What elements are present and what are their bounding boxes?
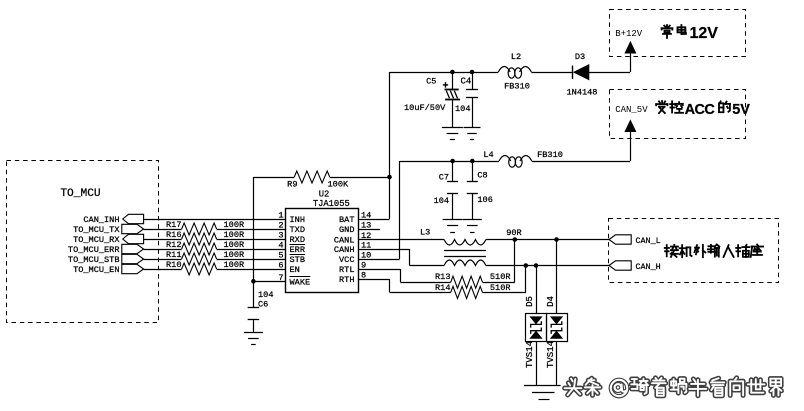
svg-text:100K: 100K	[328, 180, 349, 190]
svg-text:3: 3	[278, 231, 283, 241]
svg-text:R10: R10	[166, 260, 181, 270]
resistor R11 100R	[166, 250, 244, 265]
svg-text:R13: R13	[435, 272, 450, 282]
diode D3 1N4148	[567, 52, 598, 98]
svg-text:TJA1055: TJA1055	[313, 199, 350, 209]
port CAN_INH	[83, 214, 143, 225]
svg-text:R9: R9	[287, 180, 297, 190]
wire CAN_INH to pin 1	[144, 219, 286, 221]
inductor L2 FB310	[498, 52, 531, 92]
ground below C6	[244, 333, 263, 345]
svg-text:INH: INH	[290, 215, 305, 225]
svg-text:6: 6	[278, 261, 283, 271]
svg-text:CAN_INH: CAN_INH	[83, 215, 119, 225]
svg-text:L2: L2	[511, 52, 521, 62]
label 受控ACC的5V	[656, 101, 750, 118]
svg-text:100R: 100R	[224, 220, 245, 230]
svg-text:90R: 90R	[506, 228, 521, 238]
wire 5V rail	[400, 161, 499, 163]
port CAN_L	[609, 235, 661, 246]
svg-text:2: 2	[278, 221, 283, 231]
svg-text:TO_MCU_EN: TO_MCU_EN	[73, 265, 119, 275]
wire TO_MCU_TX to resistor R17	[144, 229, 182, 231]
svg-text:1: 1	[278, 211, 283, 221]
node C8 tap	[470, 159, 475, 164]
inductor L4 FB310	[483, 150, 563, 167]
resistor R12 100R	[166, 240, 244, 255]
wire pin 12 CANL to choke	[358, 239, 444, 241]
svg-text:STB: STB	[290, 255, 305, 265]
svg-text:CANH: CANH	[334, 245, 355, 255]
node R13/CANL junction	[513, 237, 518, 242]
svg-text:D3: D3	[575, 52, 585, 62]
svg-text:R14: R14	[435, 283, 450, 293]
IC U2 TJA1055 CAN transceiver	[278, 190, 371, 293]
wire R17 to pin 2	[217, 229, 286, 231]
wire TO_MCU_STB to resistor R11	[144, 259, 182, 261]
svg-text:D5: D5	[525, 296, 535, 307]
svg-text:TO_MCU_STB: TO_MCU_STB	[68, 255, 120, 265]
ground below D5/D4	[524, 386, 561, 400]
svg-text:FB310: FB310	[537, 150, 563, 160]
svg-text:RTL: RTL	[339, 265, 354, 275]
svg-text:5: 5	[278, 251, 283, 261]
svg-text:R17: R17	[166, 220, 181, 230]
port TO_MCU_RX	[73, 234, 144, 245]
node D5/CANH junction	[534, 263, 539, 268]
node D4/CANL junction	[554, 237, 559, 242]
svg-text:ERR: ERR	[290, 245, 305, 255]
svg-text:10uF/50V: 10uF/50V	[404, 103, 446, 113]
resistor R13 510R	[435, 272, 511, 288]
node C5 tap	[450, 70, 455, 75]
wire D4 drop	[556, 240, 558, 314]
svg-text:R16: R16	[166, 230, 181, 240]
svg-text:C4: C4	[461, 77, 472, 87]
capacitor C4 104	[455, 72, 478, 127]
capacitor C7 104	[434, 161, 459, 220]
svg-text:RTH: RTH	[339, 275, 354, 285]
node WAKE junction	[251, 279, 256, 284]
port TO_MCU_EN	[73, 264, 144, 275]
svg-text:L3: L3	[420, 228, 430, 238]
resistor R14 510R	[435, 283, 511, 299]
wire R12 to pin 4	[217, 249, 286, 251]
svg-text:100R: 100R	[224, 240, 245, 250]
wire R16 to pin 3	[217, 239, 286, 241]
svg-text:L4: L4	[483, 150, 493, 160]
svg-text:C5: C5	[426, 77, 436, 87]
label 90R	[506, 228, 521, 238]
svg-text:TO_MCU_TX: TO_MCU_TX	[73, 225, 119, 235]
svg-text:FB310: FB310	[504, 82, 530, 92]
dashed box TO_MCU	[7, 161, 159, 323]
svg-text:U2: U2	[319, 190, 330, 200]
inductor L3 common-mode choke	[420, 228, 486, 266]
power arrow B+12V	[625, 42, 635, 53]
power arrow CAN_5V	[625, 121, 635, 132]
svg-text:EN: EN	[290, 265, 300, 275]
port CAN_H	[609, 261, 661, 272]
wire R14 to CANH	[483, 266, 526, 293]
svg-text:C7: C7	[439, 173, 449, 183]
svg-text:7: 7	[278, 273, 283, 283]
svg-text:TO_MCU_ERR: TO_MCU_ERR	[68, 245, 120, 255]
ground below C4	[464, 128, 481, 140]
wire TO_MCU_ERR to resistor R12	[144, 249, 182, 251]
wire L2 to D3	[531, 72, 572, 74]
wire R11 to pin 5	[217, 259, 286, 261]
node R14/CANH junction	[524, 263, 529, 268]
port TO_MCU_ERR	[68, 244, 144, 255]
capacitor C6 104	[248, 281, 274, 332]
label CAN_5V	[615, 105, 648, 115]
wire junction to pin 7 WAKE	[253, 281, 285, 283]
svg-text:ACC: ACC	[685, 102, 716, 118]
wire pin 13 GND stub	[358, 229, 380, 231]
svg-text:VCC: VCC	[339, 255, 354, 265]
resistor R9 100K	[253, 171, 389, 190]
svg-text:WAKE: WAKE	[290, 278, 311, 288]
svg-text:GND: GND	[339, 225, 354, 235]
wire +12V rail	[390, 72, 499, 74]
svg-text:TXD: TXD	[290, 225, 305, 235]
svg-text:R11: R11	[166, 250, 181, 260]
node C4 tap	[470, 70, 475, 75]
wire pin 11 CANH jog	[358, 249, 444, 266]
svg-text:104: 104	[434, 196, 449, 206]
ground below C8	[463, 220, 482, 233]
label B+12V	[615, 29, 643, 39]
wire D3 to B+12V arrow	[589, 53, 631, 73]
port TO_MCU_STB	[68, 254, 144, 265]
watermark 头条@骑着蜗牛看向世界	[565, 378, 782, 396]
capacitor C5 10uF/50V (electrolytic)	[404, 72, 460, 127]
port TO_MCU_TX	[73, 224, 144, 235]
svg-text:100R: 100R	[224, 230, 245, 240]
svg-text:100R: 100R	[224, 250, 245, 260]
dashed box 常电12V	[610, 10, 746, 57]
capacitor C8 106	[467, 161, 493, 220]
ground below C7	[443, 220, 463, 233]
svg-text:R12: R12	[166, 240, 181, 250]
ground below C5	[442, 128, 463, 140]
wire D5 drop	[536, 266, 538, 314]
svg-text:104: 104	[455, 104, 470, 114]
svg-text:TVS14: TVS14	[546, 341, 556, 368]
svg-text:12V: 12V	[690, 25, 719, 42]
wire pin 8 RTH to R14	[358, 279, 450, 293]
svg-text:CAN_L: CAN_L	[636, 236, 661, 246]
svg-text:CANL: CANL	[334, 236, 355, 246]
wire R13 to CANL	[483, 240, 515, 283]
svg-text:TO_MCU: TO_MCU	[60, 188, 100, 200]
dashed box 受控ACC的5V	[610, 90, 746, 139]
svg-text:RXD: RXD	[290, 235, 305, 245]
wire pin 9 RTL to R13	[358, 269, 450, 283]
wire VCC riser	[358, 161, 399, 260]
svg-text:BAT: BAT	[339, 215, 354, 225]
diode D4 TVS14 (bidirectional TVS)	[546, 296, 568, 385]
node BAT/R9 junction	[387, 175, 392, 180]
wire R10 to pin 6	[217, 269, 286, 271]
resistor R16 100R	[166, 230, 244, 245]
svg-text:510R: 510R	[490, 283, 511, 293]
dashed box 接机外输入插座	[609, 219, 779, 283]
diode D5 TVS14 (bidirectional TVS)	[525, 296, 547, 385]
wire pin 14 BAT to riser	[358, 72, 389, 220]
svg-text:4: 4	[278, 241, 283, 251]
svg-text:C6: C6	[258, 300, 268, 310]
wire R9 left leg (x=253.4)	[253, 177, 255, 281]
svg-text:104: 104	[258, 290, 273, 300]
svg-text:1N4148: 1N4148	[567, 88, 598, 98]
wire TO_MCU_RX to resistor R16	[144, 239, 182, 241]
svg-text:CAN_H: CAN_H	[636, 262, 661, 272]
svg-text:D4: D4	[546, 296, 556, 307]
svg-text:TO_MCU_RX: TO_MCU_RX	[73, 235, 119, 245]
resistor R17 100R	[166, 220, 244, 235]
resistor R10 100R	[166, 260, 244, 275]
wire CANL to CAN_L port	[486, 239, 609, 241]
wire TO_MCU_EN to resistor R10	[144, 269, 182, 271]
svg-text:CAN_5V: CAN_5V	[615, 105, 648, 115]
label 常电12V	[662, 25, 719, 42]
svg-text:106: 106	[477, 195, 492, 205]
svg-text:C8: C8	[477, 171, 487, 181]
svg-text:5V: 5V	[732, 102, 750, 118]
svg-text:510R: 510R	[490, 272, 511, 282]
wire CANH to CAN_H port	[486, 265, 609, 267]
label TO_MCU	[60, 188, 100, 200]
node C7 tap	[450, 159, 455, 164]
svg-text:100R: 100R	[224, 260, 245, 270]
wire L4 to CAN_5V arrow	[532, 132, 631, 162]
svg-text:TVS14: TVS14	[525, 341, 535, 368]
svg-text:B+12V: B+12V	[615, 29, 643, 39]
svg-text:+: +	[442, 82, 448, 93]
label 接机外输入插座	[665, 245, 763, 258]
